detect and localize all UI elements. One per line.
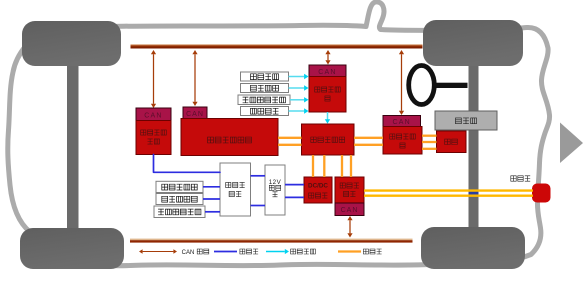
CAN bus top: [131, 44, 423, 48]
input box gear signal 档位信号: [241, 72, 289, 81]
svg-text:CAN: CAN: [393, 119, 411, 126]
CAN link bus to remote-terminal: [151, 50, 156, 108]
LV line LV box to 12V battery upper: [251, 175, 266, 177]
box LV distribution 低压配电盒: [220, 163, 251, 216]
axle crossing stripe: [469, 192, 479, 195]
box EV instrument 电动车仪表: [156, 194, 203, 205]
CAN link bus to battery: [192, 50, 197, 106]
LV line LV box to 12V battery lower: [251, 205, 266, 207]
block on-board charger 车载充电机 with CAN tab below: [335, 177, 364, 216]
svg-text:CAN: CAN: [318, 69, 336, 76]
HV line HV box to DC/DC 2: [323, 155, 325, 177]
legend CAN signal: [139, 249, 209, 256]
box 12V battery 12V蓄电池: [265, 165, 285, 215]
LV line 12V battery to DC/DC lower: [285, 196, 304, 198]
control signal other to VCU: [289, 108, 309, 113]
HV line HV box to charger 2: [350, 155, 352, 177]
charge port 充电口: [511, 176, 551, 203]
HV line charger to charge port lower: [364, 194, 533, 196]
CAN link bus to VCU: [325, 50, 330, 65]
HV line motor controller to motor 1: [422, 135, 437, 137]
wheel rear-left: [20, 228, 124, 269]
CAN bus bottom: [130, 239, 413, 243]
control signal VCU to HV box: [325, 112, 330, 124]
svg-text:12V: 12V: [269, 179, 282, 186]
LV line vacuum pump to LV box: [203, 186, 220, 188]
wheel front-left: [22, 21, 121, 66]
box other LV devices 其他低压电器: [154, 206, 205, 218]
svg-text:CAN: CAN: [182, 250, 195, 256]
control signal throttle to VCU: [290, 97, 309, 102]
block vehicle controller 整车控制器 with CAN tab: [309, 65, 346, 112]
input box e-throttle pedal 电子油门踏板: [238, 95, 290, 105]
control signal gear to VCU: [289, 74, 309, 79]
LV line 12V battery to DC/DC upper: [285, 184, 304, 186]
legend LV power: [214, 249, 258, 254]
CAN link charger to bottom bus: [347, 216, 352, 238]
block DC/DC converter DC/DC转换器: [304, 177, 332, 203]
input box brake pedal 制动踏板: [241, 84, 289, 93]
svg-text:DC/DC: DC/DC: [308, 183, 328, 190]
HV line motor controller to motor 3: [422, 148, 437, 150]
key icon: [409, 66, 468, 105]
box electric vacuum pump 电动真空泵: [156, 181, 203, 192]
LV line instrument to LV box: [203, 198, 220, 200]
HV line battery to HV box lower: [278, 144, 302, 146]
HV line charger to charge port upper: [364, 189, 533, 191]
block HV distribution box 高压配电箱: [302, 124, 355, 155]
HV line HV box to charger 1: [341, 155, 343, 177]
wheel rear-right: [421, 227, 525, 269]
legend HV power: [338, 249, 382, 254]
LV line other LV to LV box: [205, 211, 220, 213]
input box other inputs 其他输入: [241, 107, 289, 116]
HV line HV box to motor controller lower: [354, 144, 383, 146]
HV line motor controller to motor 2: [422, 141, 437, 143]
legend control signal: [266, 249, 315, 254]
HV line HV box to DC/DC 1: [312, 155, 314, 177]
right axle: [469, 58, 479, 234]
svg-text:CAN: CAN: [144, 112, 162, 119]
CAN link bus to motor-controller: [399, 50, 404, 115]
svg-text:CAN: CAN: [341, 207, 359, 214]
front direction triangle: [560, 123, 583, 164]
HV line HV box to motor controller upper: [354, 137, 383, 139]
block gearbox 变速箱: [435, 111, 497, 130]
block remote monitoring terminal 远程监控终端 with CAN tab: [136, 108, 171, 155]
LV line remote terminal to LV box: [154, 155, 221, 173]
block motor controller 电机控制器 with CAN tab: [383, 116, 422, 155]
left axle: [67, 58, 79, 234]
wheel front-right: [423, 20, 523, 66]
control signal brake to VCU: [289, 85, 309, 90]
HV line battery to HV box upper: [278, 137, 302, 139]
block power battery system 动力电池系统 with CAN tab: [181, 107, 278, 156]
block motor 电机: [437, 131, 467, 153]
svg-text:CAN: CAN: [186, 111, 204, 118]
